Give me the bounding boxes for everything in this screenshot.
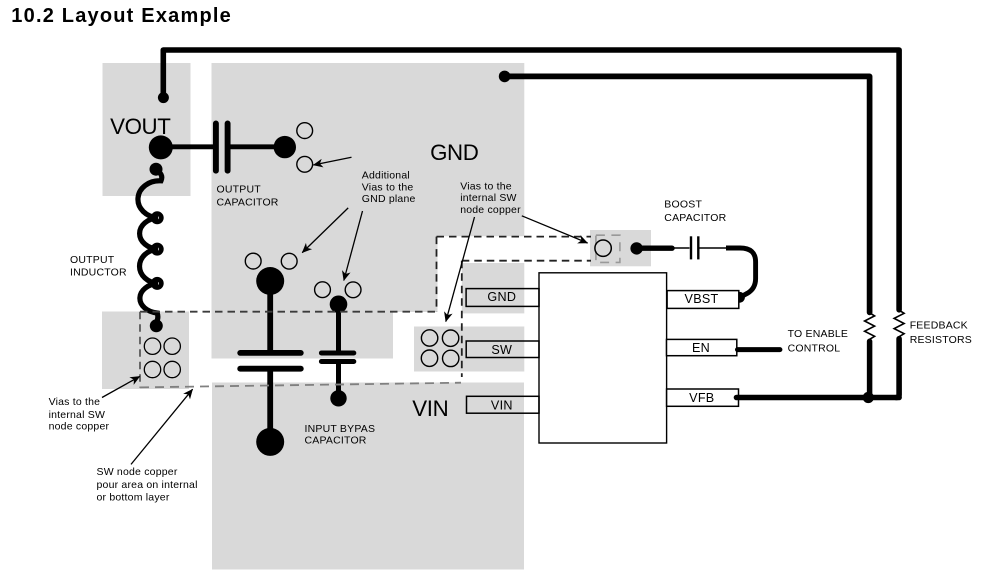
svg-text:internal SW: internal SW [460,192,516,204]
svg-text:SW: SW [491,343,512,357]
svg-text:Vias to the: Vias to the [49,396,101,408]
SW node copper pad (left) [102,312,189,390]
svg-text:EN: EN [692,341,710,355]
via above bypass capacitor (left) [315,282,331,298]
svg-text:Vias to the: Vias to the [460,180,512,192]
VIN plane copper [212,383,524,570]
arrow to boost via [522,216,588,243]
node input capacitor top dot [256,267,284,295]
svg-text:VFB: VFB [689,391,714,405]
GND plane copper [212,63,525,359]
dashed SW pour outline vertical (B) [436,237,438,312]
dashed SW pour outline bottom-left horizontal (A) [140,311,437,313]
svg-text:10.2 Layout Example: 10.2 Layout Example [11,5,232,27]
boost via copper pad [590,230,651,266]
via above input capacitor (right) [281,253,297,269]
node boost wire start dot [630,242,642,254]
via in left SW pad (top-right) [164,338,180,354]
dashed SW pour outline bottom gray (G) [140,383,461,388]
arrow to vias above input bypass capacitor [344,211,363,281]
dashed square around boost via [596,235,620,262]
svg-text:SW node copper: SW node copper [97,466,178,478]
via above input capacitor (left) [245,253,261,269]
svg-text:CAPACITOR: CAPACITOR [305,435,367,447]
svg-text:RESISTORS: RESISTORS [910,334,972,346]
via GND plane near output capacitor (bottom) [297,156,313,172]
wire boost capacitor to VBST pin [726,248,756,297]
svg-text:BOOST: BOOST [664,199,702,211]
capacitor C_in plate 1 [240,350,301,356]
lead boost capacitor right [700,247,727,249]
wire GND plane to feedback resistor R1 [505,76,870,312]
via GND plane near output capacitor (top) [297,123,313,139]
node VBST pin dot [734,292,745,303]
capacitor C_in lead top [267,281,273,350]
svg-text:VBST: VBST [685,292,719,306]
svg-text:OUTPUT: OUTPUT [70,254,115,266]
via in center SW pad (bottom-right) [443,350,459,366]
capacitor C_in plate 2 [240,366,301,372]
svg-text:node copper: node copper [49,421,110,433]
wire VOUT top rail to feedback resistor R2 [163,50,899,310]
svg-text:CONTROL: CONTROL [788,342,841,354]
svg-text:CAPACITOR: CAPACITOR [664,212,726,224]
svg-text:node copper: node copper [460,204,521,216]
svg-text:VIN: VIN [491,398,513,412]
inductor loop 1 [153,214,161,222]
arrow SW pour annotation [131,389,193,464]
via in left SW pad (bottom-left) [144,361,160,377]
svg-text:GND: GND [430,140,479,165]
svg-text:CAPACITOR: CAPACITOR [217,196,279,208]
capacitor C_byp plate 1 [321,351,353,356]
svg-text:GND plane: GND plane [362,193,416,205]
capacitor C_out plate 2 [225,123,231,170]
dashed SW pour outline top horizontal (C) [437,236,592,238]
pin box SW [466,341,539,358]
wire EN to enable control [738,347,780,352]
capacitor C_boost plate 2 [697,236,699,259]
svg-text:OUTPUT: OUTPUT [217,183,262,195]
capacitor C_byp lead bottom [336,364,341,398]
resistor R1 zigzag [865,313,875,340]
dashed SW pour outline inner horizontal (D) [462,260,591,262]
via in center SW pad (top-right) [442,330,458,346]
svg-text:INPUT BYPAS: INPUT BYPAS [305,423,376,435]
resistor R1 lower lead [867,341,873,397]
capacitor C_boost plate 1 [690,236,692,259]
svg-text:Vias to the: Vias to the [362,181,414,193]
wire VOUT dot to output capacitor [161,144,214,149]
GND plane strip behind GND pin [462,263,525,313]
arrow to center SW vias [446,217,475,322]
node output capacitor GND dot [274,136,296,158]
svg-text:VOUT: VOUT [110,114,171,139]
arrow to output capacitor vias [313,157,351,165]
inductor loop 2 [153,245,161,253]
svg-text:or bottom layer: or bottom layer [97,492,170,504]
dashed SW pour outline inner vertical (E) [461,261,463,377]
svg-text:GND: GND [487,290,516,304]
dashed SW pour outline left vertical (F) [139,312,141,388]
wire output capacitor to GND dot [230,144,284,149]
arrow to vias above input capacitor [302,208,348,253]
inductor L_out coil [138,171,162,323]
arrow left vias annotation [102,376,140,397]
node VOUT junction dot [149,135,173,159]
capacitor C_byp plate 2 [321,359,353,364]
lead boost capacitor left [672,247,690,249]
inductor loop 3 [153,279,161,287]
svg-text:pour area on internal: pour area on internal [97,479,198,491]
SW via pad and SW pin strip [414,327,524,372]
capacitor C_out plate 1 [213,123,219,170]
node bypass capacitor bottom dot [330,390,346,406]
via in center SW pad (top-left) [421,330,437,346]
pin box EN [667,339,737,355]
wire boost dot to capacitor [637,245,672,250]
pin box GND [466,289,539,307]
resistor R2 zigzag [894,310,904,337]
via in center SW pad (bottom-left) [421,350,437,366]
via above bypass capacitor (right) [345,282,361,298]
svg-text:TO ENABLE: TO ENABLE [788,328,849,340]
node inductor top dot [150,163,163,176]
capacitor C_byp lead top [336,304,341,350]
svg-text:internal SW: internal SW [49,409,105,421]
via in left SW pad (top-left) [144,338,160,354]
node GND sense dot [499,71,511,83]
node feedback junction dot [863,392,874,403]
pin box VFB [667,389,739,406]
svg-text:Additional: Additional [362,169,410,181]
svg-text:INDUCTOR: INDUCTOR [70,267,127,279]
node bypass capacitor top dot [330,296,348,314]
IC U1 body [539,273,667,443]
node inductor bottom dot [150,319,163,332]
resistor R2 lower lead [896,339,899,398]
svg-text:FEEDBACK: FEEDBACK [910,320,968,332]
pin box VIN [467,396,540,413]
node input capacitor bottom dot [256,428,284,456]
node VOUT rail endpoint [158,92,169,103]
via boost (SW node) [595,240,611,256]
capacitor C_in lead bottom [267,371,273,441]
wire VFB to feedback divider [737,395,900,401]
VOUT copper pad [103,63,191,196]
pin box VBST [667,291,739,309]
svg-text:VIN: VIN [412,396,448,421]
via in left SW pad (bottom-right) [164,361,180,377]
